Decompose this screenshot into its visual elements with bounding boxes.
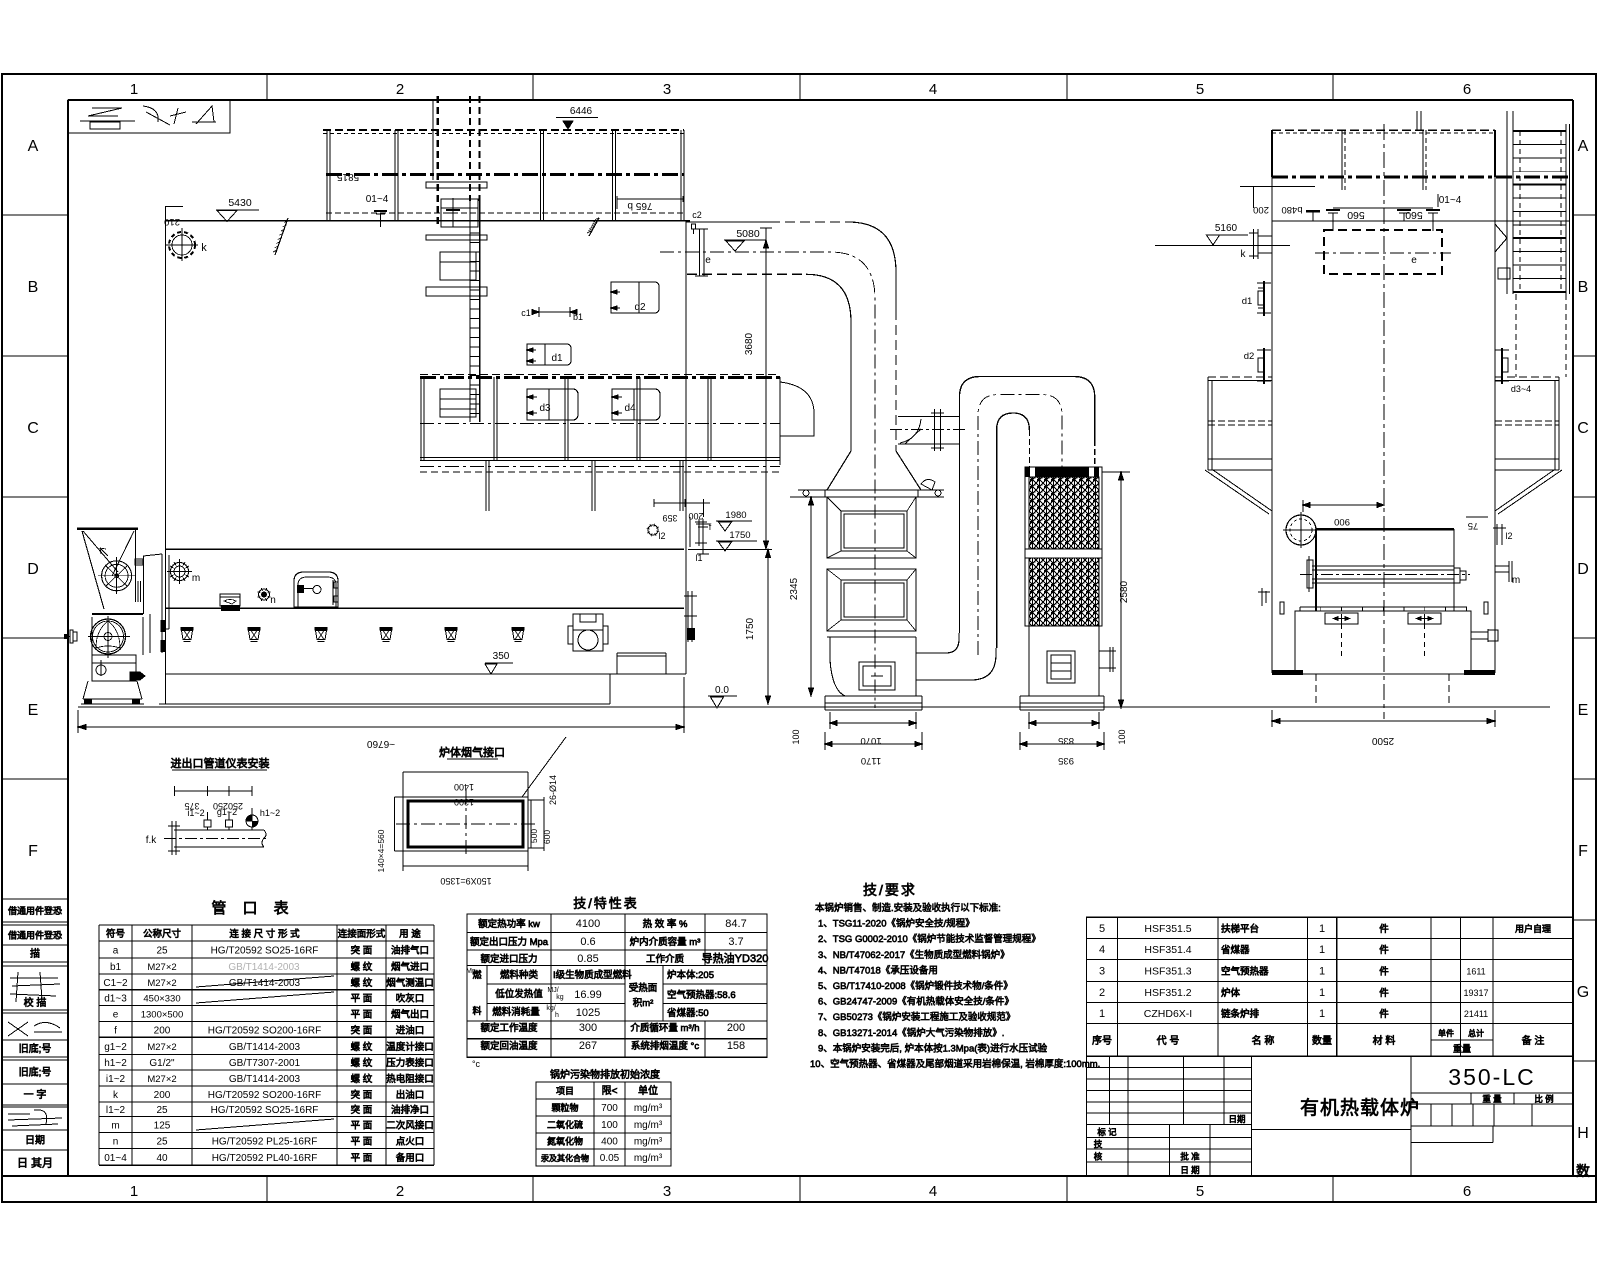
dim 1170 (reversed)	[825, 732, 922, 766]
svg-text:200: 200	[1253, 204, 1269, 215]
svg-text:3680: 3680	[744, 332, 755, 355]
svg-text:h1~2: h1~2	[104, 1058, 127, 1069]
emissions table	[536, 1082, 671, 1166]
svg-text:炉体烟气接口: 炉体烟气接口	[439, 745, 505, 759]
svg-text:HSF351.2: HSF351.2	[1144, 987, 1191, 999]
svg-text:200: 200	[154, 1090, 171, 1101]
nozzle d1 right view	[1242, 281, 1271, 316]
dim 210 (rotated)	[164, 207, 183, 228]
dim 935 (reversed)	[1020, 732, 1104, 766]
svg-text:平 面: 平 面	[351, 1009, 373, 1020]
svg-text:6446: 6446	[570, 106, 593, 117]
svg-text:375: 375	[184, 801, 199, 811]
svg-text:批 准: 批 准	[1180, 1152, 1200, 1162]
detail2 centerlines	[396, 790, 536, 858]
U pipe centerline	[978, 395, 1062, 655]
svg-text:压力表接口: 压力表接口	[386, 1057, 434, 1069]
nozzle d3~4 right view	[1495, 348, 1531, 394]
nozzle l1 detail	[695, 524, 710, 563]
section hatch mark right	[587, 218, 599, 236]
section hatch mark left	[273, 218, 288, 255]
svg-text:8、GB13271-2014《锅炉大气污染物排放》.: 8、GB13271-2014《锅炉大气污染物排放》.	[818, 1027, 1004, 1039]
economizer lug right	[916, 479, 944, 497]
svg-text:1170: 1170	[861, 755, 881, 766]
base line left view	[159, 674, 610, 704]
svg-text:d4: d4	[624, 403, 636, 414]
economizer access door	[859, 662, 895, 690]
svg-text:油排气口: 油排气口	[391, 945, 429, 957]
svg-text:e: e	[113, 1009, 119, 1020]
left edge flanges	[1258, 588, 1488, 614]
svg-text:件: 件	[1379, 944, 1389, 956]
svg-text:螺 纹: 螺 纹	[351, 1057, 373, 1069]
emissions table title	[550, 1068, 660, 1081]
dim 2500	[1272, 710, 1495, 746]
svg-text:烟气测温口: 烟气测温口	[386, 977, 434, 989]
svg-text:G: G	[1577, 984, 1589, 1001]
detail1 instrument i1~2	[187, 808, 211, 830]
svg-text:b1: b1	[573, 312, 583, 322]
svg-text:500: 500	[529, 829, 539, 843]
characteristics table title	[573, 896, 639, 911]
svg-text:m: m	[192, 573, 200, 584]
svg-text:158: 158	[727, 1040, 745, 1052]
svg-text:a: a	[113, 946, 119, 957]
svg-text:d2: d2	[634, 302, 646, 313]
nozzle l2 right	[1493, 524, 1513, 545]
svg-text:突 面: 突 面	[351, 1104, 373, 1116]
technical requirements title	[863, 882, 917, 898]
svg-text:燃料消耗量: 燃料消耗量	[492, 1006, 540, 1018]
svg-text:b1: b1	[110, 962, 122, 973]
svg-text:平 面: 平 面	[351, 994, 373, 1005]
nozzle l2 star	[647, 524, 666, 541]
svg-text:1611: 1611	[1466, 967, 1485, 977]
svg-text:汞及其化合物: 汞及其化合物	[541, 1153, 589, 1163]
label f leader	[690, 517, 712, 547]
svg-text:管 口 表: 管 口 表	[211, 900, 294, 917]
nozzle n flange	[258, 588, 276, 606]
svg-text:G1/2": G1/2"	[149, 1058, 175, 1069]
svg-text:颗粒物: 颗粒物	[551, 1102, 578, 1113]
svg-text:烟气出口: 烟气出口	[391, 1008, 429, 1020]
svg-text:0.05: 0.05	[600, 1153, 620, 1164]
dim 6446	[556, 106, 598, 129]
dim 5815 (reversed)	[336, 171, 359, 182]
svg-text:c1: c1	[521, 308, 531, 318]
svg-text:序号: 序号	[1092, 1034, 1112, 1047]
detail1 pipe	[164, 821, 269, 855]
detail2 title	[439, 745, 505, 759]
svg-text:F: F	[28, 843, 38, 860]
svg-text:重量: 重量	[1453, 1043, 1471, 1054]
svg-text:点火口: 点火口	[396, 1136, 425, 1147]
svg-text:HG/T20592 PL25-16RF: HG/T20592 PL25-16RF	[212, 1136, 318, 1147]
svg-text:额定回油温度: 额定回油温度	[480, 1040, 538, 1052]
svg-text:mg/m³: mg/m³	[634, 1153, 663, 1164]
svg-text:b480: b480	[1281, 204, 1302, 215]
svg-text:HSF351.3: HSF351.3	[1144, 966, 1191, 978]
svg-text:日期: 日期	[1228, 1114, 1245, 1124]
svg-text:代 号: 代 号	[1157, 1035, 1180, 1047]
dim 100 right (rotated)	[1117, 729, 1127, 744]
lifting lug centerline (thick dashed)	[433, 96, 438, 227]
svg-text:工作介质: 工作介质	[646, 953, 685, 965]
dim 900	[1303, 500, 1384, 527]
svg-text:用户自理: 用户自理	[1515, 923, 1551, 934]
svg-text:炉体: 炉体	[1221, 987, 1241, 999]
svg-text:4100: 4100	[576, 918, 600, 930]
svg-text:d1~3: d1~3	[104, 994, 127, 1005]
svg-text:d1: d1	[551, 353, 563, 364]
nozzle table rows	[103, 928, 433, 1164]
svg-text:2、TSG G0002-2010《锅炉节能技术监督管理规程: 2、TSG G0002-2010《锅炉节能技术监督管理规程》	[818, 933, 1041, 945]
nozzle o2 on platform	[446, 198, 460, 227]
boiler right wall	[685, 221, 687, 674]
nozzle k circle	[166, 228, 207, 261]
svg-text:日期: 日期	[25, 1135, 45, 1147]
side cone of outlet e	[1495, 224, 1510, 279]
svg-text:符号: 符号	[106, 928, 125, 940]
svg-text:B: B	[1578, 279, 1589, 296]
svg-text:900: 900	[1334, 516, 1350, 527]
svg-text:3: 3	[1099, 966, 1105, 978]
dim 5160	[1155, 223, 1289, 246]
svg-text:°c: °c	[472, 1059, 481, 1069]
label 01~4	[366, 194, 389, 205]
svg-text:01~4: 01~4	[366, 194, 389, 205]
svg-text:GB/T1414-2003: GB/T1414-2003	[228, 962, 300, 973]
dust collector outlet stub	[1099, 647, 1116, 672]
svg-text:1400: 1400	[454, 782, 474, 792]
svg-text:描: 描	[30, 947, 40, 960]
svg-text:C: C	[27, 420, 39, 437]
svg-text:M27×2: M27×2	[147, 962, 176, 973]
base upper box	[1295, 611, 1471, 674]
economizer mid band	[827, 558, 916, 569]
economizer lug left	[798, 490, 827, 497]
svg-text:k: k	[201, 242, 207, 254]
svg-text:100: 100	[601, 1120, 618, 1131]
top nozzles o1-o4	[1306, 194, 1440, 231]
nozzle o1 on platform	[374, 211, 387, 227]
dust collector lower box	[1025, 626, 1102, 696]
svg-text:d3: d3	[539, 403, 551, 414]
svg-text:2: 2	[396, 1183, 404, 1200]
svg-text:料: 料	[472, 1005, 481, 1016]
svg-text:额定进口压力: 额定进口压力	[480, 953, 537, 965]
svg-text:单件: 单件	[1438, 1028, 1454, 1038]
svg-text:d1: d1	[1242, 296, 1253, 307]
svg-text:560: 560	[1405, 209, 1423, 221]
svg-text:炉本体:205: 炉本体:205	[667, 969, 714, 981]
boiler top line	[165, 220, 690, 222]
svg-text:HG/T20592 SO25-16RF: HG/T20592 SO25-16RF	[211, 1105, 319, 1116]
economizer outlet elbow	[916, 633, 996, 680]
svg-text:额定出口压力 Mpa: 额定出口压力 Mpa	[470, 936, 549, 948]
svg-text:重 量: 重 量	[1482, 1094, 1502, 1104]
svg-text:1、TSG11-2020《锅炉安全技/规程》: 1、TSG11-2020《锅炉安全技/规程》	[818, 918, 975, 930]
svg-text:进出口管道仪表安装: 进出口管道仪表安装	[171, 756, 270, 770]
svg-text:H: H	[1577, 1125, 1589, 1142]
svg-text:件: 件	[1379, 923, 1389, 935]
svg-text:E: E	[28, 702, 39, 719]
svg-text:250250: 250250	[213, 801, 243, 811]
svg-text:0.0: 0.0	[715, 685, 729, 696]
detail1 instrument h1~2	[246, 808, 280, 830]
label c2 flange	[690, 210, 702, 234]
label e	[705, 255, 711, 266]
svg-text:Mp: Mp	[466, 968, 476, 975]
feeder chute plates	[138, 554, 169, 653]
svg-text:日 期: 日 期	[1180, 1165, 1199, 1175]
svg-text:7、GB50273《锅炉安装工程施工及验收规范》: 7、GB50273《锅炉安装工程施工及验收规范》	[818, 1011, 1015, 1023]
svg-text:e: e	[1411, 255, 1417, 266]
svg-text:n: n	[270, 595, 276, 606]
svg-text:16.99: 16.99	[574, 989, 602, 1001]
right ladder tower	[1507, 111, 1570, 377]
svg-text:0.6: 0.6	[580, 936, 595, 948]
svg-text:氮氧化物: 氮氧化物	[547, 1136, 583, 1147]
grate wheels row	[181, 627, 525, 642]
svg-text:1: 1	[130, 1183, 138, 1200]
svg-text:数量: 数量	[1312, 1034, 1332, 1047]
right side platform	[1495, 377, 1562, 514]
svg-text:01~4: 01~4	[104, 1153, 127, 1164]
burner flange circle	[1283, 512, 1319, 548]
svg-text:2: 2	[396, 81, 404, 98]
svg-text:5: 5	[1099, 923, 1105, 935]
svg-text:二次风接口: 二次风接口	[386, 1119, 434, 1131]
svg-text:A: A	[28, 138, 39, 155]
svg-text:21411: 21411	[1464, 1009, 1488, 1019]
svg-text:吹灰口: 吹灰口	[396, 993, 425, 1005]
svg-text:低位发热值: 低位发热值	[495, 988, 543, 1000]
svg-text:200: 200	[154, 1025, 171, 1036]
dim 1750 vertical	[688, 549, 772, 704]
svg-text:5、GB/T17410-2008《锅炉锻件技术物/条件》: 5、GB/T17410-2008《锅炉锻件技术物/条件》	[818, 980, 1013, 992]
svg-text:0.85: 0.85	[577, 953, 598, 965]
svg-text:560: 560	[1347, 209, 1365, 221]
svg-text:项目: 项目	[556, 1086, 574, 1096]
svg-text:额定热功率 kw: 额定热功率 kw	[478, 918, 540, 930]
svg-text:平 面: 平 面	[351, 1120, 373, 1131]
svg-text:1300: 1300	[454, 797, 474, 807]
svg-text:烟气进口: 烟气进口	[391, 961, 429, 973]
svg-text:螺 纹: 螺 纹	[351, 1073, 373, 1085]
svg-text:l2: l2	[1505, 531, 1512, 541]
svg-text:平 面: 平 面	[351, 1136, 373, 1147]
svg-text:mg/m³: mg/m³	[634, 1120, 663, 1131]
svg-text:热电阻接口: 热电阻接口	[386, 1073, 434, 1085]
svg-text:350-LC: 350-LC	[1448, 1064, 1535, 1090]
svg-text:i1~2: i1~2	[106, 1074, 126, 1085]
svg-text:84.7: 84.7	[725, 918, 746, 930]
detail1 title	[171, 756, 270, 770]
svg-text:40: 40	[156, 1153, 168, 1164]
svg-text:m: m	[111, 1120, 119, 1131]
svg-text:GB/T1414-2003: GB/T1414-2003	[229, 1042, 301, 1053]
svg-text:5: 5	[1196, 81, 1204, 98]
svg-text:210: 210	[164, 216, 180, 227]
svg-text:359: 359	[662, 513, 677, 523]
svg-text:标 记: 标 记	[1097, 1127, 1117, 1137]
feeder fan	[98, 557, 135, 594]
probes c1 b1	[521, 307, 583, 322]
drive unit box	[568, 614, 608, 651]
svg-text:6: 6	[1463, 1183, 1471, 1200]
svg-text:本锅炉销售、制造.安装及验收执行以下标准:: 本锅炉销售、制造.安装及验收执行以下标准:	[815, 902, 1001, 914]
boiler outlet flange e	[695, 229, 708, 276]
svg-text:突 面: 突 面	[351, 945, 373, 957]
svg-text:B: B	[28, 279, 39, 296]
svg-text:件: 件	[1379, 987, 1389, 999]
level mark 350	[485, 651, 513, 674]
svg-text:数: 数	[1576, 1163, 1590, 1179]
svg-text:备用口: 备用口	[396, 1152, 425, 1164]
dims 200 b480 560 560	[1240, 187, 1462, 222]
svg-text:2: 2	[1099, 987, 1105, 999]
svg-text:有机热载体炉: 有机热载体炉	[1300, 1097, 1420, 1119]
svg-text:旧底;号: 旧底;号	[19, 1066, 52, 1079]
nozzle d2 right view	[1244, 348, 1271, 384]
svg-text:mg/m³: mg/m³	[634, 1137, 663, 1148]
ground line	[78, 706, 1550, 708]
base side stub	[1471, 629, 1498, 642]
flue duct top wall	[686, 222, 896, 451]
svg-text:导热油YD320: 导热油YD320	[702, 951, 769, 965]
detail2 dim 1400	[403, 772, 528, 797]
svg-text:用 途: 用 途	[399, 928, 421, 940]
svg-text:扶梯平台: 扶梯平台	[1221, 923, 1259, 935]
svg-text:受热面: 受热面	[629, 982, 658, 994]
svg-text:9、本锅炉安装完后, 炉本体按1.3Mpa(表)进行水压试验: 9、本锅炉安装完后, 炉本体按1.3Mpa(表)进行水压试验	[818, 1042, 1048, 1054]
svg-text:01~4: 01~4	[1439, 195, 1462, 206]
svg-text:借通用件登恐: 借通用件登恐	[8, 930, 62, 941]
svg-text:1: 1	[1319, 987, 1325, 999]
svg-text:3、NB/T47062-2017《生物质成型燃料锅炉》: 3、NB/T47062-2017《生物质成型燃料锅炉》	[818, 949, 1010, 961]
svg-text:935: 935	[1058, 755, 1074, 766]
drum body	[1316, 529, 1454, 611]
nozzle m gear flange	[167, 559, 200, 584]
dim 2580 vertical	[1102, 472, 1130, 708]
technical requirements text	[810, 902, 1100, 1070]
svg-text:10、空气预热器、省煤器及尾部烟道采用岩棉保温, 岩棉厚度:: 10、空气预热器、省煤器及尾部烟道采用岩棉保温, 岩棉厚度:100mm.	[810, 1058, 1100, 1070]
mid platform	[420, 375, 814, 512]
flue outlet e dashed box	[1315, 230, 1451, 274]
svg-text:GB/T7307-2001: GB/T7307-2001	[229, 1058, 301, 1069]
nozzle m right	[1495, 561, 1520, 586]
svg-text:螺 纹: 螺 纹	[351, 1041, 373, 1053]
svg-text:2345: 2345	[789, 577, 800, 600]
svg-text:I级生物质成型燃料: I级生物质成型燃料	[553, 969, 632, 981]
svg-text:C: C	[1577, 420, 1589, 437]
svg-text:5815: 5815	[336, 171, 359, 182]
svg-text:140×4=560: 140×4=560	[376, 829, 386, 872]
svg-text:mg/m³: mg/m³	[634, 1103, 663, 1114]
svg-text:CZHD6X-I: CZHD6X-I	[1144, 1008, 1192, 1020]
svg-text:M27×2: M27×2	[147, 978, 176, 989]
row grid ticks right band	[1573, 215, 1596, 1061]
dim 1070 (reversed)	[830, 712, 916, 746]
svg-text:2500: 2500	[1371, 735, 1394, 746]
svg-text:备 注: 备 注	[1522, 1034, 1545, 1047]
svg-text:MJ/: MJ/	[547, 987, 558, 994]
ladder center	[426, 96, 487, 422]
svg-text:校 描: 校 描	[24, 996, 47, 1009]
svg-text:HSF351.4: HSF351.4	[1144, 944, 1191, 956]
dust collector hatched body	[1025, 467, 1102, 626]
dim 75	[1466, 517, 1488, 531]
svg-text:出油口: 出油口	[396, 1089, 425, 1101]
svg-text:1300×500: 1300×500	[141, 1009, 184, 1020]
svg-text:1: 1	[1319, 1008, 1325, 1020]
svg-text:介质循环量 m³/h: 介质循环量 m³/h	[630, 1022, 699, 1034]
svg-text:热 效 率 %: 热 效 率 %	[643, 918, 688, 930]
svg-text:技: 技	[1094, 1139, 1103, 1149]
dims 200 359	[654, 499, 710, 523]
characteristics table grid	[467, 914, 767, 1057]
damper box d4	[612, 389, 660, 420]
svg-text:19317: 19317	[1463, 988, 1488, 998]
svg-text:E: E	[1578, 702, 1589, 719]
svg-text:进油口: 进油口	[396, 1024, 425, 1036]
svg-text:1750: 1750	[745, 617, 756, 640]
svg-text:5160: 5160	[1215, 223, 1238, 234]
svg-text:M27×2: M27×2	[147, 1074, 176, 1085]
svg-text:l2: l2	[658, 531, 665, 541]
svg-text:空气预热器:58.6: 空气预热器:58.6	[667, 989, 736, 1001]
svg-text:4: 4	[1099, 944, 1105, 956]
drum shaft	[1300, 556, 1470, 592]
feeder grill	[135, 559, 143, 565]
svg-text:螺 纹: 螺 纹	[351, 961, 373, 973]
svg-text:1: 1	[130, 81, 138, 98]
svg-text:HG/T20592 SO25-16RF: HG/T20592 SO25-16RF	[211, 946, 319, 957]
damper box d3	[527, 389, 578, 420]
svg-text:系统排烟温度 °c: 系统排烟温度 °c	[631, 1040, 699, 1052]
svg-text:700: 700	[601, 1103, 618, 1114]
svg-text:4: 4	[929, 81, 937, 98]
boiler left wall	[161, 221, 166, 704]
svg-text:3.7: 3.7	[728, 936, 743, 948]
svg-text:件: 件	[1379, 966, 1389, 978]
economizer bottom flange	[827, 631, 916, 637]
duct to economizer transition	[825, 451, 921, 497]
svg-text:A: A	[1578, 138, 1589, 155]
svg-text:1750: 1750	[729, 530, 750, 541]
bypass stub with damper	[890, 409, 965, 451]
svg-text:连接面形式: 连接面形式	[338, 928, 386, 940]
detail2 rects	[403, 797, 528, 851]
economizer upper section	[827, 497, 916, 558]
svg-text:单位: 单位	[638, 1084, 658, 1097]
svg-text:h: h	[555, 1012, 559, 1019]
svg-text:空气预热器: 空气预热器	[1221, 966, 1269, 978]
svg-text:限<: 限<	[602, 1085, 618, 1097]
dim 1980	[716, 510, 752, 531]
column grid ticks top band	[267, 74, 1333, 1202]
svg-text:GB/T1414-2003: GB/T1414-2003	[229, 1074, 301, 1085]
detail1 label f.k	[146, 835, 158, 846]
feeder body	[92, 614, 143, 655]
svg-text:200: 200	[727, 1022, 745, 1034]
left margin cells	[2, 899, 68, 1176]
dust collector access door	[1047, 651, 1075, 683]
detail2 dims 500 600	[528, 797, 552, 851]
svg-text:3: 3	[663, 81, 671, 98]
dim 765 b (reversed)	[617, 196, 683, 211]
